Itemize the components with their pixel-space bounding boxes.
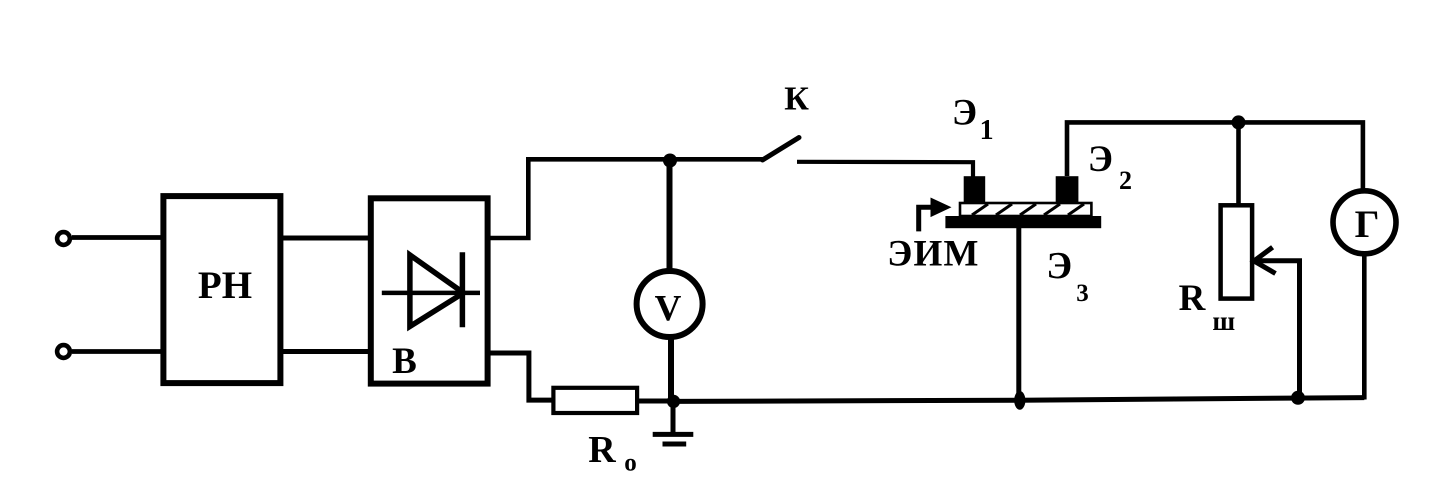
svg-text:Э: Э bbox=[952, 93, 977, 134]
svg-text:1: 1 bbox=[980, 115, 994, 146]
svg-text:R: R bbox=[588, 429, 616, 471]
svg-text:ЭИМ: ЭИМ bbox=[887, 233, 979, 274]
svg-text:V: V bbox=[655, 289, 682, 330]
svg-text:ш: ш bbox=[1212, 306, 1235, 336]
svg-text:о: о bbox=[624, 450, 637, 477]
svg-text:В: В bbox=[392, 341, 417, 382]
svg-text:Г: Г bbox=[1355, 203, 1380, 246]
svg-text:Э: Э bbox=[1046, 245, 1072, 287]
svg-text:РН: РН bbox=[198, 264, 252, 307]
svg-text:R: R bbox=[1179, 278, 1207, 319]
svg-text:3: 3 bbox=[1076, 280, 1089, 307]
svg-text:К: К bbox=[784, 81, 809, 118]
svg-text:2: 2 bbox=[1119, 166, 1132, 195]
svg-text:Э: Э bbox=[1088, 139, 1113, 180]
